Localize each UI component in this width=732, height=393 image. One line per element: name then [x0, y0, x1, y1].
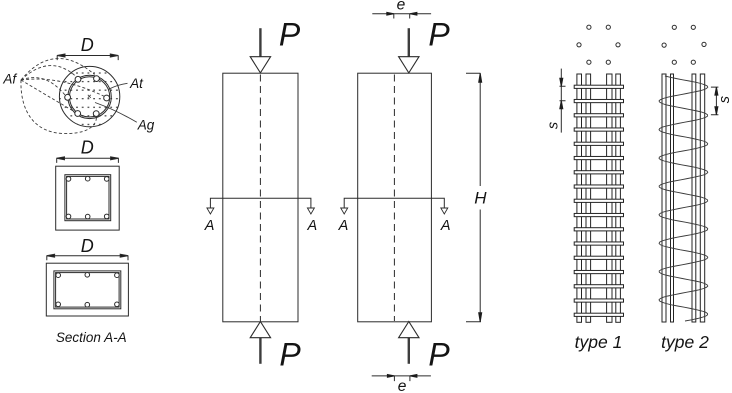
- type 2 vertical bar #1: [662, 74, 666, 322]
- type 2 spiral reinforcement: [659, 76, 708, 321]
- center mark: [88, 95, 91, 98]
- Af leader fan (dashed curves to each rebar): [21, 59, 105, 134]
- column left (concentric load): dashed centerline: [259, 75, 261, 322]
- section cut line A-A (left column): [210, 198, 311, 208]
- square tie (double rectangle): [65, 175, 111, 221]
- svg-text:D: D: [81, 236, 94, 256]
- cut arrowheads (left column): [207, 208, 315, 214]
- rectangular column outline: [46, 263, 128, 316]
- svg-text:D: D: [81, 35, 94, 55]
- svg-text:Af: Af: [2, 72, 17, 87]
- rebar (rectangular section) #5: [85, 302, 90, 307]
- rectangular section: D dimension line: [47, 254, 129, 260]
- svg-text:A: A: [204, 218, 215, 234]
- svg-text:e: e: [398, 378, 407, 393]
- rebar (square section) #5: [85, 214, 90, 219]
- load P arrow bottom (right column): open arrowhead: [399, 322, 419, 338]
- svg-text:H: H: [474, 189, 487, 208]
- type 2 plan view rebar circles: [662, 25, 706, 64]
- svg-text:P: P: [279, 336, 301, 372]
- type 1 plan view rebar circles: [577, 25, 620, 64]
- load P arrow top (right column): open arrowhead: [399, 57, 419, 73]
- svg-text:A: A: [338, 218, 349, 234]
- rebar (square section) #6: [104, 214, 109, 219]
- square column outline: [56, 166, 119, 230]
- svg-text:A: A: [306, 218, 317, 234]
- type 1 vertical bar #2: [586, 74, 591, 322]
- load P arrow bottom (left column): open arrowhead: [250, 322, 270, 338]
- longitudinal rebar Af #3 (circular section): [65, 94, 71, 100]
- load P arrow bottom (right column): shaft: [408, 338, 410, 364]
- svg-text:P: P: [428, 336, 450, 372]
- rebar (rectangular section) #3: [115, 273, 120, 278]
- type 2 vertical bar #2: [671, 74, 674, 322]
- longitudinal rebar Af #6 (circular section): [93, 111, 99, 117]
- type 2 vertical bar #3: [692, 74, 696, 322]
- load P arrow bottom (left column): shaft: [259, 338, 261, 364]
- svg-text:type 1: type 1: [575, 332, 623, 352]
- longitudinal rebar Af #1 (circular section): [75, 76, 81, 82]
- column left (concentric load): outline: [223, 73, 298, 322]
- rebar (rectangular section) #6: [115, 302, 120, 307]
- svg-text:P: P: [428, 17, 450, 53]
- tie/spiral ring At (double circle): [68, 75, 111, 118]
- eccentricity e dimension (bottom): [372, 375, 431, 382]
- type 1 ties (17 horizontal hoops): [574, 85, 623, 316]
- svg-text:P: P: [279, 17, 301, 53]
- svg-text:type 2: type 2: [661, 332, 709, 352]
- column right (eccentric load): dashed centerline: [393, 75, 395, 322]
- eccentricity e dimension (top): [372, 12, 431, 18]
- square section: D dimension line: [57, 157, 119, 163]
- rebar (rectangular section) #2: [85, 273, 90, 278]
- load P arrow top (left column): open arrowhead: [250, 57, 270, 73]
- type 1 vertical bar #1: [577, 74, 582, 322]
- rebar (rectangular section) #1: [56, 273, 61, 278]
- section cut line A-A (right column): [344, 198, 444, 208]
- svg-text:Ag: Ag: [137, 117, 155, 132]
- type 2 vertical bar #4: [700, 74, 704, 322]
- rectangular tie (double rectangle): [54, 271, 121, 309]
- label At with leader: [109, 83, 128, 89]
- svg-text:D: D: [81, 138, 94, 158]
- load P arrow top (right column): shaft: [408, 28, 410, 57]
- type 1 vertical bar #4: [616, 74, 621, 322]
- longitudinal rebar Af #2 (circular section): [94, 76, 100, 82]
- rebar (rectangular section) #4: [56, 302, 61, 307]
- svg-text:s: s: [546, 122, 562, 129]
- svg-text:At: At: [129, 76, 144, 91]
- rebar (square section) #4: [66, 214, 71, 219]
- svg-text:s: s: [717, 96, 732, 103]
- s spacing dimension (type 1): [560, 69, 566, 133]
- cut arrowheads (right column): [341, 208, 448, 214]
- s spacing dimension (type 2): [711, 87, 719, 115]
- type 1 vertical bar #3: [607, 74, 612, 322]
- svg-text:A: A: [440, 218, 451, 234]
- circular section: D dimension line: [57, 54, 118, 60]
- rebar (square section) #1: [66, 177, 71, 182]
- load P arrow top (left column): shaft: [259, 28, 261, 57]
- svg-text:e: e: [397, 0, 406, 14]
- longitudinal rebar Af #4 (circular section): [104, 95, 110, 101]
- rebar (square section) #3: [104, 177, 109, 182]
- svg-text:Section A-A: Section A-A: [56, 330, 127, 345]
- longitudinal rebar Af #5 (circular section): [75, 111, 81, 117]
- label Ag with leader: [95, 103, 137, 123]
- column right (eccentric load): outline: [358, 73, 432, 322]
- H dimension line: [466, 73, 482, 321]
- rebar (square section) #2: [85, 176, 90, 181]
- circular column outer circle (Ag) with concrete hatch dots: [59, 66, 119, 126]
